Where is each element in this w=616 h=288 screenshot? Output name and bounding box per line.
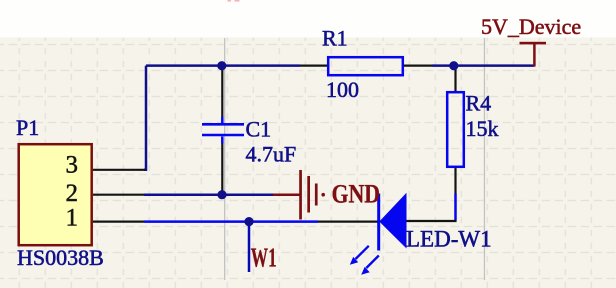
svg-text:5V_Device: 5V_Device xyxy=(481,14,581,39)
svg-text:P1: P1 xyxy=(16,115,39,140)
svg-text:GND: GND xyxy=(332,181,381,209)
svg-text:LED-W1: LED-W1 xyxy=(406,227,492,252)
svg-text:C1: C1 xyxy=(246,116,272,141)
svg-text:15k: 15k xyxy=(466,116,499,141)
svg-text:HS0038B: HS0038B xyxy=(17,245,104,270)
svg-text:4.7uF: 4.7uF xyxy=(246,142,297,167)
svg-text:1: 1 xyxy=(66,205,79,232)
svg-text:3: 3 xyxy=(66,152,79,179)
svg-text:2: 2 xyxy=(66,180,79,207)
svg-text:R4: R4 xyxy=(466,91,492,116)
svg-text:R1: R1 xyxy=(322,26,348,51)
svg-text:W1: W1 xyxy=(251,243,277,273)
svg-text:100: 100 xyxy=(326,77,359,102)
